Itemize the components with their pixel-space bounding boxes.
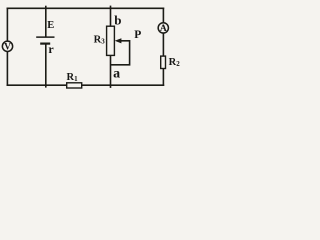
wire: left vertical (voltmeter branch) bbox=[6, 8, 8, 85]
svg-text:a: a bbox=[113, 67, 120, 82]
wire: top horizontal from left corner to right branch bbox=[7, 7, 163, 9]
svg-text:A: A bbox=[160, 24, 167, 34]
battery E plate short bbox=[40, 42, 50, 44]
wire: battery branch upper bbox=[45, 7, 47, 37]
svg-text:r: r bbox=[48, 42, 54, 56]
potentiometer R3 box bbox=[107, 26, 115, 55]
voltmeter V bbox=[2, 41, 12, 52]
resistor R2 box bbox=[161, 56, 166, 68]
wire: right vertical (ammeter / R2 branch) bbox=[162, 8, 164, 85]
ammeter A bbox=[158, 23, 168, 34]
wiper arrowhead on R3 bbox=[115, 38, 122, 43]
battery E plate long bbox=[36, 36, 54, 38]
svg-text:P: P bbox=[134, 29, 141, 41]
wire: battery branch lower bbox=[45, 44, 47, 87]
wire: R3 branch (node b to node a) bbox=[110, 6, 112, 87]
resistor R1 box bbox=[67, 83, 82, 88]
wire: wiper P link (horizontal, down, back to node a) bbox=[111, 41, 130, 65]
svg-text:b: b bbox=[114, 13, 121, 28]
wire: bottom horizontal bbox=[7, 84, 163, 86]
svg-text:E: E bbox=[47, 20, 54, 31]
svg-text:V: V bbox=[4, 43, 11, 53]
